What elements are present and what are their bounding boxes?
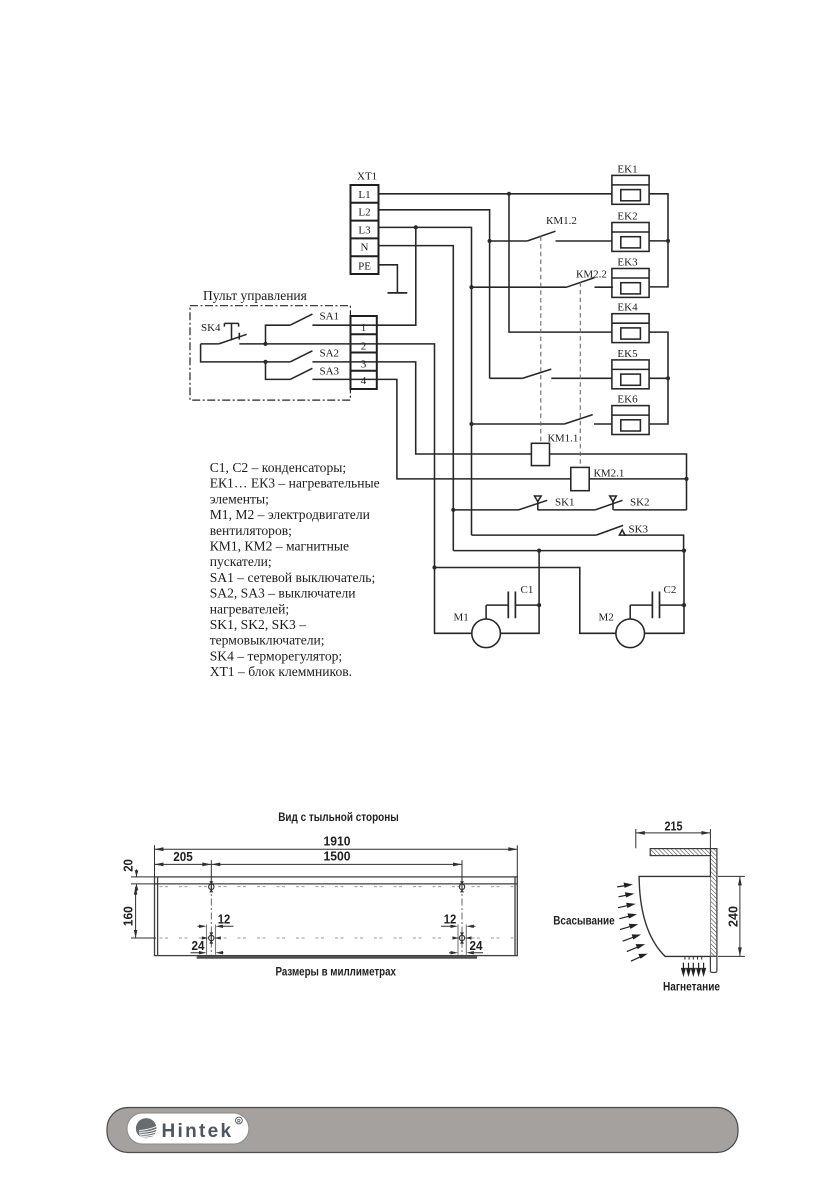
switch SA3 branch <box>266 362 291 380</box>
bottom strip <box>197 956 477 959</box>
wire terminal 2 to motors <box>377 344 472 633</box>
inner dashed lines <box>160 886 515 888</box>
wire L1 branch to EK4 <box>509 194 612 332</box>
svg-text:L2: L2 <box>358 207 370 219</box>
svg-text:1: 1 <box>361 322 367 334</box>
wire branch to M2 <box>435 568 616 634</box>
terminal block 1-4 <box>351 316 377 389</box>
wire EK2 to star <box>649 240 668 242</box>
svg-text:термовыключатели;: термовыключатели; <box>210 633 325 648</box>
outlet grille ticks <box>685 956 702 959</box>
wire SK3 to node <box>624 535 684 551</box>
svg-text:2: 2 <box>361 341 367 353</box>
bolt top-right <box>459 884 464 889</box>
svg-text:Нагнетание: Нагнетание <box>663 981 720 994</box>
ground <box>388 292 408 294</box>
svg-text:EK2: EK2 <box>617 211 637 223</box>
node return M2 <box>682 549 686 553</box>
wire M2 right <box>645 551 685 634</box>
svg-text:Размеры в миллиметрах: Размеры в миллиметрах <box>275 966 396 979</box>
svg-text:вентиляторов;: вентиляторов; <box>210 523 292 538</box>
svg-text:12: 12 <box>218 913 231 927</box>
FOOTER <box>107 1108 738 1153</box>
unit body profile <box>639 876 710 956</box>
wire L2 down <box>379 210 490 378</box>
wire KM2.2 to EK3 <box>595 286 614 288</box>
coil KM1.1 <box>531 443 549 465</box>
node M2 branch <box>432 565 436 569</box>
arrows 205-1500 <box>155 863 164 867</box>
dim 12 and 24 lines <box>191 926 484 952</box>
BACKVIEW <box>122 811 518 979</box>
svg-text:SK3: SK3 <box>629 524 649 536</box>
bolt bottom-left <box>209 935 214 940</box>
bolt bottom-right <box>459 935 464 940</box>
wire L3 down <box>379 227 472 535</box>
wire EK6 row from L3 <box>472 423 565 425</box>
svg-text:EK4: EK4 <box>617 302 638 314</box>
wire M1 right <box>500 551 539 634</box>
svg-text:PE: PE <box>358 260 371 272</box>
svg-text:пускатели;: пускатели; <box>210 554 272 569</box>
svg-text:N: N <box>361 242 369 254</box>
node SA1 branch <box>263 342 267 346</box>
thermal switch SK2 triangle <box>610 496 617 510</box>
heater EK4 <box>612 314 649 343</box>
wire KM2.2 feed <box>472 286 567 288</box>
wire star point EK1-EK3 <box>649 194 668 287</box>
capacitor C1 <box>508 592 515 619</box>
svg-text:М2: М2 <box>599 612 614 624</box>
wire SK1 to SK2 <box>538 509 596 511</box>
SIDEVIEW <box>553 819 745 993</box>
contact SK3 blade <box>596 525 623 535</box>
bolt position markers <box>209 881 213 884</box>
bolt arrows <box>202 936 209 939</box>
svg-text:SK4 – терморегулятор;: SK4 – терморегулятор; <box>210 648 343 663</box>
svg-text:SA1: SA1 <box>320 311 340 323</box>
heater EK2 <box>612 223 649 252</box>
switch SA2 blade <box>290 351 312 362</box>
terminal block XT1 <box>351 185 379 274</box>
svg-text:4: 4 <box>361 375 367 387</box>
node return M1 <box>537 549 541 553</box>
svg-text:М1, М2 – электродвигатели: М1, М2 – электродвигатели <box>210 507 370 522</box>
thermostat SK4 <box>201 343 219 345</box>
wire to EK6 <box>594 423 612 425</box>
svg-text:КМ2.1: КМ2.1 <box>594 468 625 480</box>
wire EK5 to star <box>649 377 668 379</box>
contact KM2.2 blade <box>567 278 595 288</box>
heater EK1 <box>612 175 649 204</box>
svg-text:Пульт управления: Пульт управления <box>203 288 307 303</box>
node L1-EK4 branch <box>507 192 511 196</box>
bolt centerlines <box>211 885 462 956</box>
svg-text:3: 3 <box>361 359 367 371</box>
contact KM1 aux blade (EK5) <box>523 369 552 378</box>
svg-text:1910: 1910 <box>324 835 351 849</box>
wall bar hatched <box>710 849 717 957</box>
node rail-KM2.1 <box>684 477 688 481</box>
thermal switch SK1 triangle <box>535 496 542 510</box>
svg-text:Вид с тыльной стороны: Вид с тыльной стороны <box>278 811 399 824</box>
wire SK3 row feed <box>472 534 597 536</box>
bolt top-left <box>209 883 465 943</box>
heater EK6 <box>612 406 649 435</box>
linkage KM1 dashed <box>540 236 542 443</box>
node C2 right <box>682 603 686 607</box>
dim 20 <box>131 869 159 891</box>
svg-text:24: 24 <box>192 939 205 953</box>
svg-text:L3: L3 <box>358 224 371 236</box>
control panel box <box>190 306 350 400</box>
dim 1910 line <box>155 848 518 850</box>
svg-text:20: 20 <box>122 859 136 872</box>
dim 240 <box>718 876 745 956</box>
node N-SK1 feed <box>451 508 455 512</box>
wire PE <box>379 265 398 293</box>
svg-text:С1, С2 – конденсаторы;: С1, С2 – конденсаторы; <box>210 460 346 475</box>
switch SA1 branch <box>266 325 291 344</box>
wire L3 to terminal 1 <box>377 227 416 325</box>
wire SK1 feed <box>453 509 518 511</box>
wire C2 leads <box>630 605 684 619</box>
svg-text:элементы;: элементы; <box>210 491 269 506</box>
dim 160 <box>131 887 156 938</box>
wire coil KM2.1 to right rail <box>589 478 686 480</box>
coil KM2.1 <box>571 467 589 490</box>
svg-text:EK5: EK5 <box>617 348 638 360</box>
svg-text:КМ1.1: КМ1.1 <box>548 432 579 444</box>
switch SA1 blade <box>290 314 312 325</box>
registered mark <box>236 1117 243 1124</box>
node L3-terminal1 branch <box>414 225 418 229</box>
footer bar <box>107 1108 738 1153</box>
svg-text:SK1, SK2, SK3 –: SK1, SK2, SK3 – <box>210 617 307 632</box>
wire panel left drop <box>201 344 291 362</box>
wire EK5 row from L2 <box>490 377 523 379</box>
wire C1 leads <box>486 605 539 619</box>
LEGEND <box>210 460 380 679</box>
wire L1 to heater EK1 <box>379 193 612 195</box>
svg-text:240: 240 <box>727 906 741 927</box>
housing outline <box>155 877 518 956</box>
SCHEMATIC-TEXT <box>201 163 676 623</box>
svg-text:SA3: SA3 <box>320 366 340 378</box>
arrows 160 <box>134 887 138 895</box>
svg-text:EK1: EK1 <box>617 163 637 175</box>
wire to EK5 <box>551 377 612 379</box>
intake arrows <box>617 883 646 961</box>
motor M2 <box>616 619 645 648</box>
arrows 1910 <box>134 847 518 938</box>
svg-text:КМ1, КМ2 – магнитные: КМ1, КМ2 – магнитные <box>210 539 349 554</box>
wire SK4 out to terminal 2 <box>239 343 376 345</box>
node star EK2 <box>666 239 670 243</box>
contact KM2 aux blade (EK6) <box>564 415 592 424</box>
svg-text:ХТ1 – блок клеммников.: ХТ1 – блок клеммников. <box>210 664 352 679</box>
wire coil KM1.1 to right rail <box>550 454 687 510</box>
svg-text:EK6: EK6 <box>617 394 638 406</box>
svg-text:КМ2.2: КМ2.2 <box>576 268 607 280</box>
contact KM1.2 blade <box>527 231 555 241</box>
heater EK3 <box>612 269 649 298</box>
wire motor return line <box>453 550 684 552</box>
motor M1 <box>472 619 501 648</box>
capacitor C2 <box>652 592 659 619</box>
wire SA1 to terminal 1 <box>312 324 376 326</box>
wire terminal 4 to coil KM2.1 <box>377 379 571 479</box>
node C1 right <box>537 603 541 607</box>
svg-text:SK4: SK4 <box>201 322 221 334</box>
linkage KM2 dashed <box>579 282 581 467</box>
wire SA2 to terminal 3 <box>312 361 376 363</box>
logo pill <box>127 1113 249 1144</box>
wire N down <box>379 246 454 551</box>
node SA3 branch <box>263 360 267 364</box>
svg-text:С1: С1 <box>521 584 534 596</box>
svg-text:L1: L1 <box>358 189 370 201</box>
wire star point EK4-EK6 <box>649 332 668 424</box>
wire KM1.2 feed <box>490 240 528 242</box>
svg-text:R: R <box>237 1119 241 1125</box>
arrows 20 <box>135 870 139 877</box>
switch SA3 blade <box>290 368 312 379</box>
dim 205-1500 line <box>155 863 463 865</box>
SCHEMATIC-WIRES <box>190 175 687 647</box>
contact SK2 blade <box>595 500 622 510</box>
svg-text:С2: С2 <box>664 584 677 596</box>
svg-text:SA1 – сетевой выключатель;: SA1 – сетевой выключатель; <box>210 570 376 585</box>
svg-text:Hintek: Hintek <box>162 1121 234 1142</box>
node star EK5 <box>666 376 670 380</box>
thermal switch SK3 triangle <box>619 530 625 535</box>
node L3-KM2.2 feed <box>469 285 473 289</box>
svg-text:SK1: SK1 <box>555 496 575 508</box>
svg-text:SA2: SA2 <box>320 348 340 360</box>
svg-text:1500: 1500 <box>324 850 351 864</box>
svg-text:нагревателей;: нагревателей; <box>210 601 289 616</box>
svg-text:XT1: XT1 <box>357 171 377 183</box>
svg-text:12: 12 <box>444 913 457 927</box>
svg-text:205: 205 <box>173 850 193 864</box>
wire SK2 to rail <box>614 509 687 511</box>
svg-text:215: 215 <box>665 819 683 833</box>
logo globe <box>136 1118 157 1139</box>
svg-text:Всасывание: Всасывание <box>553 915 615 928</box>
heater EK5 <box>612 360 649 389</box>
node L3-EK6 feed <box>469 422 473 426</box>
svg-text:М1: М1 <box>454 612 469 624</box>
svg-text:ЕК1… ЕК3 – нагревательные: ЕК1… ЕК3 – нагревательные <box>210 476 380 491</box>
svg-text:24: 24 <box>470 939 483 953</box>
contact SK1 blade <box>519 500 548 510</box>
svg-text:EK3: EK3 <box>617 257 638 269</box>
svg-text:160: 160 <box>122 906 136 926</box>
wire SA3 to terminal 4 <box>312 378 376 380</box>
outlet arrows <box>682 963 706 975</box>
svg-text:SA2, SA3 – выключатели: SA2, SA3 – выключатели <box>210 586 356 601</box>
svg-text:КМ1.2: КМ1.2 <box>546 215 577 227</box>
wall bar lower stub <box>710 956 717 972</box>
svg-text:SK2: SK2 <box>630 497 650 509</box>
node L2-KM1.2 feed <box>488 239 492 243</box>
wire KM1.2 to EK2 <box>556 240 612 242</box>
wire terminal 3 to coil KM1.1 <box>377 362 532 454</box>
slot lines <box>207 925 467 955</box>
mounting plate hatched <box>650 849 716 856</box>
